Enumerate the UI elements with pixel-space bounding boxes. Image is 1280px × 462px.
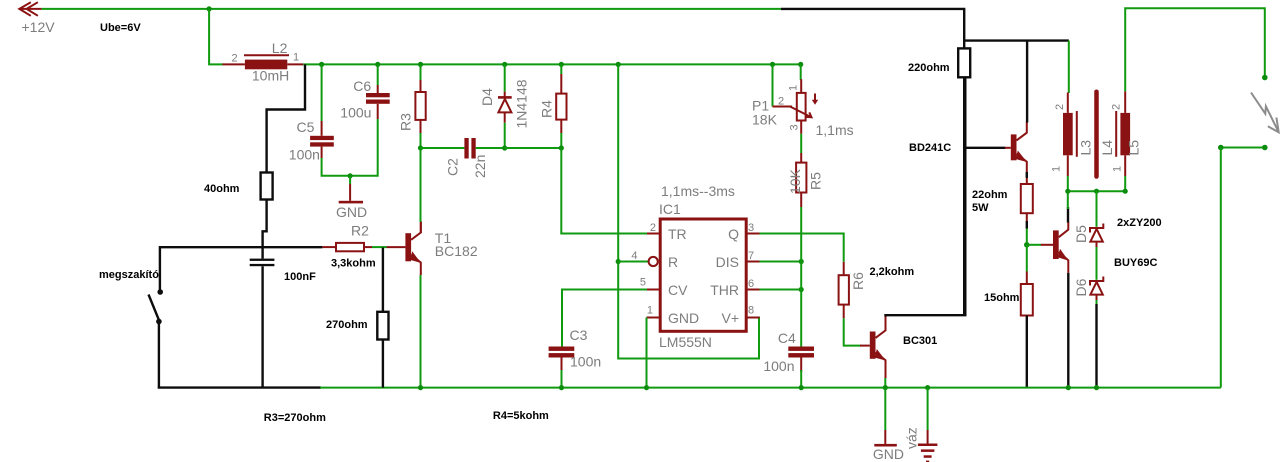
wire THR pin6 to R5 chain: [760, 289, 802, 291]
wire CV pin5: [562, 290, 648, 347]
wire R6 to BC301 base: [844, 318, 861, 345]
node R4 bottom: [559, 145, 564, 150]
node C6 top: [375, 62, 380, 67]
svg-text:D5: D5: [1073, 225, 1089, 243]
svg-text:D4: D4: [479, 88, 495, 106]
svg-text:Ube=6V: Ube=6V: [100, 22, 141, 34]
supply arrow +12V: [19, 2, 55, 35]
node R3/C2/T1: [418, 145, 423, 150]
pin 8 V+ stub: [746, 305, 759, 318]
svg-text:R3=270ohm: R3=270ohm: [264, 412, 326, 424]
node reset rail top: [616, 62, 621, 67]
svg-text:10mH: 10mH: [252, 68, 289, 84]
svg-text:BD241C: BD241C: [909, 142, 951, 154]
svg-text:1: 1: [1051, 166, 1063, 172]
svg-text:100nF: 100nF: [284, 271, 316, 283]
svg-text:1: 1: [788, 85, 800, 91]
wire breaker top: [160, 247, 323, 290]
ground GND2: [873, 388, 904, 462]
svg-text:+12V: +12V: [22, 19, 56, 35]
wire 40ohm to condenser: [263, 200, 267, 259]
wire switch to ground bus: [158, 322, 160, 389]
wire to R pin4: [618, 261, 648, 263]
pin 4 R stub with inversion circle: [631, 250, 657, 266]
svg-text:15ohm: 15ohm: [984, 292, 1020, 304]
svg-text:2: 2: [778, 96, 784, 108]
node spark bottom right: [1262, 145, 1268, 151]
spark arrow: [1251, 93, 1279, 133]
node C4 bottom: [799, 385, 804, 390]
svg-text:R4=5kohm: R4=5kohm: [493, 410, 549, 422]
transistor BD241C: [909, 122, 1027, 174]
node BC301 emitter / GND2: [883, 385, 888, 390]
svg-text:IC1: IC1: [659, 201, 681, 217]
resistor 22ohm 5W: [972, 184, 1033, 214]
svg-text:5: 5: [640, 277, 646, 289]
wire base to BUY69C: [1027, 244, 1042, 246]
node P1 pin1 top: [798, 62, 803, 67]
ground bus green: [320, 387, 1221, 389]
node spark top terminal: [1262, 75, 1268, 81]
svg-text:1: 1: [647, 305, 653, 317]
svg-text:100n: 100n: [570, 354, 601, 370]
wire trigger to IC pin2 TR: [561, 148, 648, 234]
svg-text:2,2kohm: 2,2kohm: [870, 266, 915, 278]
svg-text:40ohm: 40ohm: [204, 183, 240, 195]
wire R2 to T1 base: [372, 246, 387, 248]
capacitor C6: [340, 64, 389, 120]
diode D5 zener: [1073, 224, 1103, 248]
svg-text:R5: R5: [808, 172, 824, 190]
svg-text:2xZY200: 2xZY200: [1117, 217, 1162, 229]
svg-text:1,1ms--3ms: 1,1ms--3ms: [661, 183, 735, 199]
pin 7 DIS stub: [746, 250, 759, 262]
resistor 40ohm: [204, 173, 273, 200]
svg-text:LM555N: LM555N: [659, 334, 712, 350]
svg-text:R3: R3: [398, 113, 414, 131]
capacitor C5: [289, 64, 334, 162]
node BUY69C base: [1024, 242, 1030, 248]
node reset branch: [616, 259, 621, 264]
wire Q pin3 to R6: [760, 234, 844, 262]
diode D6 zener: [1073, 277, 1103, 301]
svg-text:220ohm: 220ohm: [908, 62, 950, 74]
wire C5 to gnd node: [322, 158, 351, 176]
wire drop to L2: [209, 9, 223, 65]
node pin1 at bus: [644, 385, 649, 390]
wire reset/V+ rail: [618, 64, 759, 358]
svg-text:L3: L3: [1078, 140, 1094, 156]
svg-text:D6: D6: [1073, 278, 1089, 296]
resistor 270ohm: [326, 312, 389, 340]
resistor R5 10K: [787, 153, 824, 207]
node THR: [799, 287, 804, 292]
wire BUY69C collector up to coil node: [1067, 207, 1069, 223]
svg-text:1,1ms: 1,1ms: [816, 122, 854, 138]
wire DIS pin7 to R5 chain: [760, 261, 802, 263]
svg-text:5W: 5W: [972, 202, 989, 214]
node D4 bottom: [502, 145, 507, 150]
wire BD241C collector black up: [1026, 41, 1028, 123]
transistor BUY69C: [1053, 222, 1157, 273]
svg-text:C6: C6: [353, 78, 371, 94]
svg-text:8: 8: [748, 305, 754, 317]
svg-text:270ohm: 270ohm: [326, 319, 368, 331]
svg-text:100u: 100u: [340, 105, 371, 121]
node D5 top: [1094, 189, 1099, 194]
svg-text:3: 3: [748, 222, 754, 234]
wire trigger line D4 to R4: [505, 147, 562, 149]
svg-text:GND: GND: [873, 446, 904, 462]
node BUY emitter at bus: [1066, 385, 1071, 390]
svg-text:100n: 100n: [763, 358, 794, 374]
capacitor C2: [421, 138, 505, 178]
wire D4 to trigger line: [504, 123, 506, 148]
node D4 top: [502, 62, 507, 67]
resistor 220ohm: [908, 40, 970, 77]
wire L2 to bus: [303, 63, 321, 65]
transistor T1 BC182: [405, 221, 477, 275]
node L3 bottom: [1065, 189, 1070, 194]
wire condenser to ground bus: [261, 266, 263, 387]
node vaz at bus: [925, 385, 930, 390]
wire coil bottoms: [1067, 176, 1069, 191]
wire 270ohm to ground bus: [382, 340, 384, 388]
wire D6 to ground bus: [1096, 300, 1098, 305]
svg-text:R2: R2: [351, 223, 369, 239]
svg-text:GND: GND: [668, 310, 699, 326]
capacitor 100nF (points condenser): [250, 259, 316, 283]
svg-text:2: 2: [232, 53, 238, 65]
wire BC301 emitter to ground bus: [884, 378, 886, 388]
svg-text:R6: R6: [850, 272, 866, 290]
svg-text:C4: C4: [778, 330, 796, 346]
wire ground bus black part: [158, 386, 321, 388]
svg-text:BC301: BC301: [903, 335, 937, 347]
svg-text:TR: TR: [668, 226, 687, 242]
pin 1 GND stub: [647, 305, 661, 318]
svg-text:2: 2: [1054, 104, 1066, 110]
wire C4 to ground bus: [800, 370, 802, 388]
svg-text:6: 6: [748, 278, 754, 290]
svg-text:2: 2: [650, 222, 656, 234]
resistor R4: [539, 64, 567, 133]
svg-text:C3: C3: [570, 327, 588, 343]
wire base BD241C: [964, 147, 1005, 149]
svg-text:1N4148: 1N4148: [514, 79, 530, 128]
svg-text:V+: V+: [721, 310, 739, 326]
node R4 top: [559, 62, 564, 67]
switch megszakito: [99, 269, 163, 324]
wire top to L3: [1068, 41, 1070, 93]
svg-text:GND: GND: [336, 204, 367, 220]
wire trigger node down to T1 collector: [420, 148, 422, 222]
wire spark bottom terminal: [1221, 147, 1265, 149]
svg-text:L4: L4: [1099, 140, 1115, 156]
wire 15ohm from base node: [1026, 245, 1028, 272]
op-amp-style IC1 LM555N box: [659, 201, 746, 350]
resistor 15ohm: [984, 284, 1033, 316]
wire top +12V rail: [42, 8, 781, 10]
svg-text:7: 7: [748, 250, 754, 262]
svg-text:1: 1: [1112, 166, 1124, 172]
svg-text:C5: C5: [297, 119, 315, 135]
pin 2 TR stub: [647, 222, 660, 234]
wire 15ohm to ground bus: [1026, 316, 1028, 387]
svg-text:DIS: DIS: [716, 254, 739, 270]
resistor R6: [839, 262, 915, 319]
svg-text:4: 4: [631, 250, 637, 262]
node D6 at bus: [1094, 385, 1099, 390]
diode D4 1N4148: [479, 64, 530, 128]
chassis ground vaz: [904, 388, 938, 462]
wire R4 bottom to trigger node: [560, 133, 562, 148]
pin 6 THR stub: [746, 278, 759, 290]
svg-text:2: 2: [1111, 104, 1123, 110]
pin 3 Q stub: [746, 222, 759, 234]
wire R5 down through DIS THR to C4: [800, 207, 802, 347]
wire R3 bottom to trigger line: [420, 133, 422, 148]
svg-text:1: 1: [293, 52, 299, 64]
svg-text:22ohm: 22ohm: [972, 189, 1008, 201]
node R3 top: [418, 62, 423, 67]
wire BC301 collector black: [886, 77, 966, 317]
node top rail junction: [207, 6, 212, 11]
svg-text:R4: R4: [539, 100, 555, 118]
inductor L2: [222, 40, 303, 84]
resistor R3: [398, 64, 426, 133]
wire black L2 to 40ohm: [267, 64, 305, 172]
svg-text:18K: 18K: [752, 112, 778, 128]
svg-text:22n: 22n: [472, 155, 488, 178]
node gnd1: [348, 173, 353, 178]
svg-text:megszakító: megszakító: [99, 269, 159, 281]
wire C3 to ground bus: [561, 370, 563, 388]
node DIS: [799, 259, 804, 264]
wire BUY69C emitter to ground bus: [1067, 273, 1069, 388]
wire 22ohm to base node: [1026, 213, 1028, 222]
transformer coil L5: [1111, 91, 1142, 176]
potentiometer P1 18K: [752, 64, 854, 138]
main VCC bus: [322, 63, 801, 65]
wire T1 emitter to ground bus: [420, 275, 422, 388]
svg-text:L2: L2: [272, 40, 288, 56]
wire right return to ground bus: [1220, 148, 1222, 388]
svg-text:THR: THR: [710, 282, 739, 298]
pin 5 CV stub: [640, 277, 660, 290]
capacitor C4: [763, 330, 814, 374]
capacitor C3: [549, 327, 602, 372]
wire 220ohm bottom / BD241C base rail: [963, 77, 965, 315]
node C3 bottom: [559, 385, 564, 390]
transistor BC301: [870, 316, 937, 378]
node spark bottom left: [1218, 145, 1224, 151]
transformer core L4: [1097, 92, 1116, 177]
transformer coil L3: [1051, 93, 1094, 177]
svg-text:C2: C2: [445, 158, 461, 176]
wire BD241C emitter to 22ohm: [1026, 173, 1028, 177]
node L5 bottom: [1123, 189, 1128, 194]
svg-text:CV: CV: [668, 282, 688, 298]
wire to D5: [1096, 191, 1098, 227]
wire black top rail to 220ohm: [781, 9, 1069, 41]
svg-text:R: R: [668, 254, 678, 270]
svg-text:Q: Q: [728, 226, 739, 242]
wire D5 to D6: [1096, 247, 1098, 280]
node P1 wiper top: [770, 62, 775, 67]
svg-text:váz: váz: [904, 427, 920, 449]
svg-text:L5: L5: [1126, 140, 1142, 156]
svg-text:3,3kohm: 3,3kohm: [331, 258, 376, 270]
svg-text:BUY69C: BUY69C: [1114, 257, 1157, 269]
wire L5 top to spark terminal: [1125, 8, 1265, 91]
resistor R2: [322, 223, 375, 270]
wire 270ohm top: [382, 248, 384, 312]
wire GND pin1 to ground bus: [646, 318, 648, 388]
ground GND1: [336, 176, 367, 220]
node C5 top: [319, 62, 324, 67]
svg-text:3: 3: [789, 124, 801, 130]
svg-text:10K: 10K: [787, 168, 803, 194]
svg-text:100n: 100n: [289, 147, 320, 163]
svg-text:BC182: BC182: [435, 243, 478, 259]
node T1 emitter at bus: [418, 385, 423, 390]
wire P1 to R5: [800, 121, 802, 134]
wire C6 to gnd node: [350, 119, 378, 176]
